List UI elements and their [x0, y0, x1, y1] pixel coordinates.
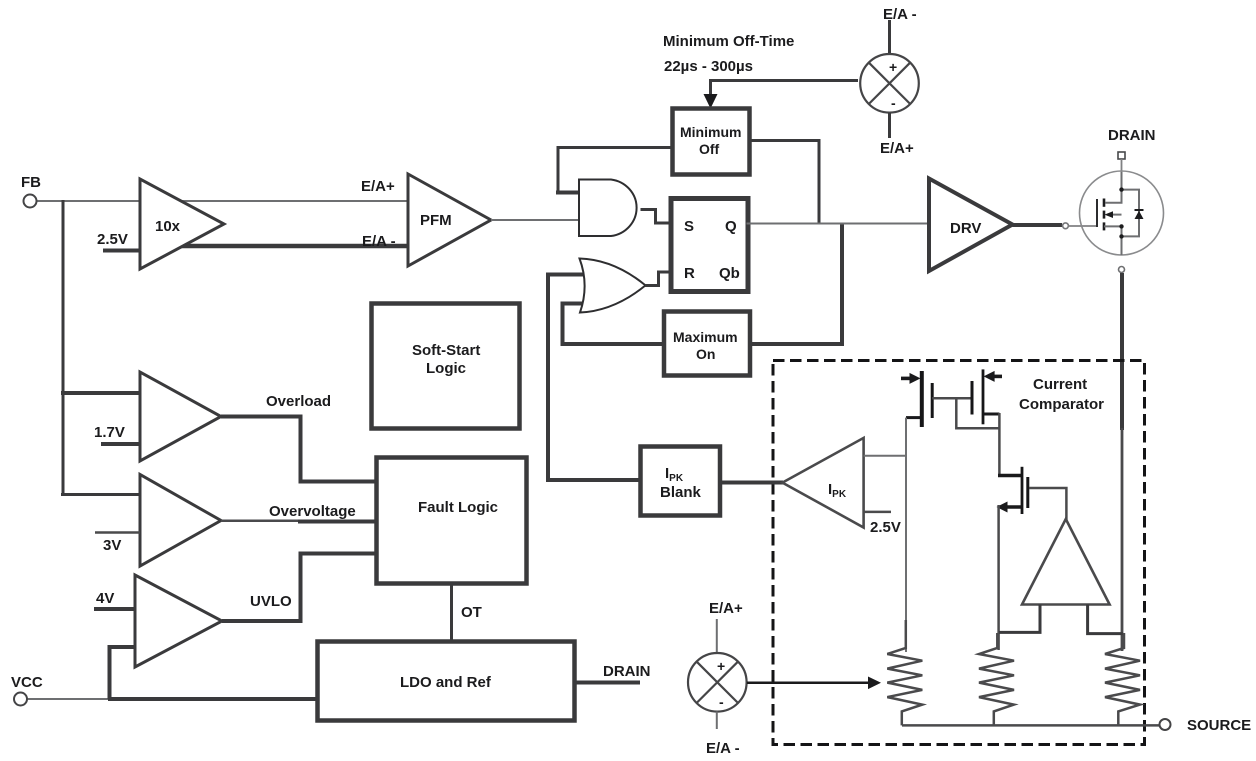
mirror MOSFET M2 gate plate: [982, 369, 985, 424]
wire M3 source down to R2: [997, 505, 1000, 650]
body diode cathode bar: [1135, 209, 1144, 211]
wire M3 drain stub: [998, 474, 1022, 477]
svg-text:SOURCE: SOURCE: [1187, 717, 1251, 734]
sense MOSFET M3 source arrow: [1003, 505, 1021, 509]
svg-text:2.5V: 2.5V: [97, 231, 128, 248]
svg-text:S: S: [684, 218, 694, 235]
arrowhead into minimum off box: [704, 94, 718, 109]
wire FB to 10x amp input (E/A+ run): [37, 200, 408, 202]
svg-text:FB: FB: [21, 174, 41, 191]
wire branch to overload comparator top input: [61, 391, 140, 395]
svg-text:-: -: [891, 95, 896, 111]
svg-text:+: +: [889, 59, 897, 75]
op-amp right input leg: [1088, 605, 1123, 634]
svg-text:Fault Logic: Fault Logic: [418, 499, 498, 516]
resistor R1 (sense): [887, 620, 922, 725]
X cross inside top summing circle: [869, 63, 910, 104]
svg-text:UVLO: UVLO: [250, 593, 292, 610]
comparator PFM: [408, 174, 491, 266]
wire Ipk blank output to Ipk comparator: [720, 481, 783, 485]
FB terminal circle: [24, 195, 37, 208]
svg-text:-: -: [719, 694, 724, 710]
svg-text:PFM: PFM: [420, 212, 452, 229]
MOSFET gate plate: [1096, 199, 1098, 227]
svg-text:10x: 10x: [155, 218, 181, 235]
summing circle top: [860, 54, 919, 113]
op-amp left input leg: [999, 605, 1040, 633]
svg-text:R: R: [684, 265, 695, 282]
comparator UVLO: [135, 575, 222, 667]
svg-text:+: +: [717, 658, 725, 674]
SOURCE terminal circle: [1160, 719, 1171, 730]
comparator overvoltage: [140, 475, 221, 567]
wire overload output to fault logic: [221, 417, 378, 482]
wire OT from fault logic to LDO: [450, 583, 453, 642]
op-amp in current comparator: [1022, 519, 1110, 605]
wire stub above bottom E/A circle: [716, 619, 718, 653]
svg-text:E/A+: E/A+: [709, 600, 743, 617]
wire stub above top E/A circle: [888, 20, 891, 54]
MOSFET drain tap: [1105, 172, 1122, 203]
svg-text:22µs - 300µs: 22µs - 300µs: [664, 58, 753, 75]
block Minimum Off: [673, 109, 750, 175]
svg-text:Blank: Blank: [660, 484, 702, 501]
sense MOSFET M3 gate tap to amp: [1029, 488, 1066, 521]
AND gate: [579, 180, 637, 237]
svg-text:Logic: Logic: [426, 360, 466, 377]
mirror MOSFET M2 arrow: [991, 375, 1002, 379]
wire from E/A summing circle to minimum off box with arrow: [711, 81, 859, 98]
MOSFET channel bar segments: [1103, 199, 1106, 207]
resistor R2: [979, 633, 1014, 725]
svg-text:3V: 3V: [103, 537, 121, 554]
wire AND output to S input: [641, 210, 673, 224]
OR gate: [580, 259, 646, 313]
wire VCC to LDO: [108, 697, 318, 701]
svg-text:Off: Off: [699, 141, 720, 157]
wire arrow from bottom E/A circle into R1: [747, 682, 872, 685]
MOSFET source arrow (body): [1107, 214, 1122, 216]
mirror MOSFET M1 source tap: [906, 416, 920, 419]
op-amp 10x: [140, 179, 224, 269]
summing circle bottom: [688, 653, 747, 712]
svg-text:Current: Current: [1033, 376, 1087, 393]
block Maximum On: [664, 312, 750, 376]
sense MOSFET M3 channel bar: [1021, 467, 1024, 514]
wire FB vertical branch down to comparators: [62, 200, 65, 496]
mirror MOSFET M1 channel bar: [931, 383, 934, 418]
power MOSFET Q1 body circle: [1080, 171, 1164, 255]
wire Ipk bottom input 2.5V stub: [864, 511, 891, 514]
svg-text:Maximum: Maximum: [673, 329, 738, 345]
wire AND gate top input stub: [556, 191, 581, 195]
wire overvoltage output to fault logic: [221, 519, 305, 522]
svg-text:Overload: Overload: [266, 393, 331, 410]
svg-text:DRV: DRV: [950, 220, 981, 237]
wire minimum off right to Q line: [750, 141, 820, 224]
wire OR bottom input from maximum on: [563, 304, 666, 345]
svg-text:E/A -: E/A -: [706, 740, 740, 757]
wire OR gate top input stub: [546, 273, 585, 277]
junction dots on MOSFET internal node: [1119, 187, 1123, 191]
wire OR output to R input: [645, 272, 672, 286]
MOSFET source tap: [1104, 226, 1122, 255]
wire to power MOSFET gate: [1069, 225, 1098, 227]
wire MOSFET source down into current comparator: [1120, 273, 1124, 430]
flip-flop SR latch box: [671, 199, 748, 292]
comparator overload: [140, 372, 221, 461]
wire minimum off left feedback to AND gate input: [558, 148, 673, 193]
sense MOSFET M3 gate plate: [1026, 477, 1029, 508]
buffer DRV: [929, 179, 1013, 272]
wire rail M2 drain down to sense MOSFET M3: [998, 413, 1001, 476]
dashed box current comparator: [773, 361, 1145, 745]
svg-text:Minimum: Minimum: [680, 124, 741, 140]
mirror MOSFET M1 arrow: [901, 377, 913, 381]
svg-text:1.7V: 1.7V: [94, 424, 125, 441]
svg-text:DRAIN: DRAIN: [603, 663, 651, 680]
comparator Ipk (points left): [782, 438, 863, 528]
wire bottom source rail: [902, 724, 1160, 727]
body diode triangle: [1135, 211, 1144, 219]
body diode vertical branch: [1122, 190, 1140, 237]
source terminal circle under MOSFET: [1119, 267, 1125, 273]
svg-text:VCC: VCC: [11, 674, 43, 691]
svg-text:Minimum Off-Time: Minimum Off-Time: [663, 33, 794, 50]
wire DRAIN output of LDO: [575, 681, 641, 685]
wire DRV output: [1013, 223, 1063, 227]
wire 4V stub: [94, 607, 135, 611]
svg-text:Q: Q: [725, 218, 737, 235]
svg-text:Overvoltage: Overvoltage: [269, 503, 356, 520]
wire 3V stub: [95, 531, 140, 534]
mirror MOSFET M2 channel bar: [971, 381, 974, 415]
svg-text:2.5V: 2.5V: [870, 519, 901, 536]
block Soft-Start Logic: [372, 304, 520, 429]
svg-text:Qb: Qb: [719, 265, 740, 282]
wire drain terminal to MOSFET circle: [1121, 159, 1123, 172]
svg-text:Soft-Start: Soft-Start: [412, 342, 480, 359]
svg-text:Comparator: Comparator: [1019, 396, 1104, 413]
svg-text:E/A+: E/A+: [361, 178, 395, 195]
mirror MOSFET M2 drain tap: [984, 413, 999, 416]
svg-text:E/A+: E/A+: [880, 140, 914, 157]
svg-text:E/A -: E/A -: [362, 233, 396, 250]
wire rail from M1 down to R1 and Ipk input: [905, 418, 907, 652]
wire E/A- thick line from 10x amp to PFM: [170, 244, 408, 249]
svg-text:4V: 4V: [96, 590, 114, 607]
wire gate-drain diode connection drop: [956, 398, 999, 428]
X cross inside bottom summing circle: [697, 662, 738, 703]
block LDO and Ref: [318, 642, 575, 721]
resistor R3: [1105, 633, 1140, 725]
gate terminal circle on DRV output: [1063, 223, 1069, 229]
wire PFM output to AND gate: [491, 219, 579, 221]
wire VCC branch up to UVLO comparator lower input: [110, 647, 136, 699]
block Ipk Blank: [641, 447, 721, 516]
block Fault Logic: [377, 458, 527, 584]
mirror gates connector: [932, 397, 972, 400]
DRAIN square terminal: [1118, 152, 1125, 159]
wire R feedback from OR input down to Ipk blank: [548, 273, 640, 480]
svg-text:DRAIN: DRAIN: [1108, 127, 1156, 144]
wire 2.5V stub into 10x amp: [103, 249, 140, 253]
VCC terminal circle: [14, 693, 27, 706]
wire 1.7V stub: [101, 442, 140, 446]
wire Ipk top input from sense rail: [864, 455, 906, 457]
wire stub below bottom E/A circle: [716, 712, 718, 730]
svg-text:LDO and Ref: LDO and Ref: [400, 674, 492, 691]
wire maximum on right side up to Q line: [750, 224, 842, 345]
svg-text:On: On: [696, 346, 715, 362]
wire UVLO output to fault logic: [222, 554, 378, 622]
wire Q output to DRV: [747, 223, 930, 225]
svg-text:OT: OT: [461, 604, 482, 621]
wire VCC thin segment: [27, 698, 110, 700]
mirror MOSFET M1 gate plate: [920, 371, 924, 427]
wire stub below top E/A circle: [888, 113, 891, 138]
wire branch to overvoltage comparator top input: [61, 493, 140, 496]
